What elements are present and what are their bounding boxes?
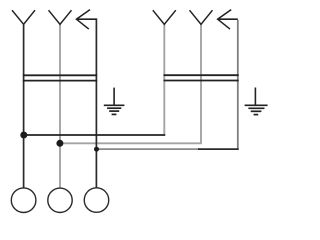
wire W6 gray vertical arrow lead x=237.8 <box>237 20 239 150</box>
wire W2 gray vertical antenna A2 stem x=60 <box>59 24 61 188</box>
link bar LB1a upper rung left group <box>23 74 97 76</box>
ground GND2 bar2 <box>248 107 264 109</box>
wire W5 gray vertical antenna A4 stem x=201 <box>200 24 202 144</box>
ground GND2 stem <box>254 88 256 105</box>
wire W1 black vertical antenna A1 stem x=23.6 <box>23 24 25 188</box>
ground GND1 bar1 <box>104 104 125 106</box>
receiver RX3 circle <box>84 188 109 213</box>
antenna A3 arms <box>153 10 176 24</box>
ground GND1 bar4 <box>112 113 117 115</box>
ground GND1 bar3 <box>109 110 119 112</box>
receiver RX1 circle <box>11 188 36 213</box>
wire H3a gray horizontal y=149.1 node C bus left part <box>97 148 200 150</box>
node D2 junction dot <box>56 140 63 147</box>
antenna A4 arms <box>190 10 213 24</box>
link bar LB2b lower rung right group <box>164 80 239 82</box>
wire W3 black vertical arrow lead x=96.4 <box>95 18 97 188</box>
wire H2 gray horizontal y=143.3 node B bus <box>60 142 202 144</box>
wire H1 black horizontal y=135 node A bus <box>24 134 166 136</box>
arrow AR1 shaft <box>76 18 96 20</box>
arrow AR1 head <box>76 10 90 30</box>
arrow AR2 shaft <box>218 18 238 20</box>
arrow AR2 head <box>218 10 232 30</box>
node D1 junction dot <box>20 132 27 139</box>
ground GND1 stem <box>113 88 115 105</box>
wire W4 gray vertical antenna A3 stem x=164.3 <box>163 24 165 135</box>
link bar LB2a upper rung right group <box>164 74 239 76</box>
node D3 junction dot <box>94 147 99 152</box>
wire H3b black horizontal y=149.1 node C bus right part <box>198 148 239 150</box>
receiver RX2 circle <box>48 188 72 212</box>
antenna A1 arms <box>12 10 35 24</box>
ground GND2 bar3 <box>251 110 262 112</box>
ground GND2 bar1 <box>245 104 268 106</box>
ground GND2 bar4 <box>254 114 259 116</box>
antenna A2 arms <box>49 10 72 24</box>
link bar LB1b lower rung left group <box>23 80 97 82</box>
ground GND1 bar2 <box>107 107 121 109</box>
